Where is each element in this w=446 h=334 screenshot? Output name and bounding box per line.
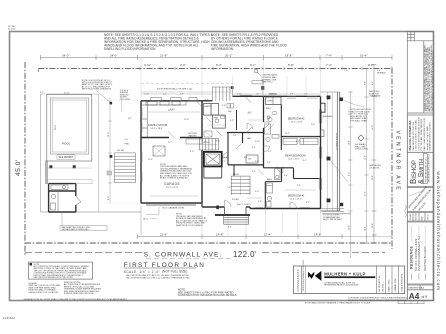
- svg-text:3'-6": 3'-6": [205, 100, 209, 102]
- svg-text:LIN.: LIN.: [248, 159, 252, 161]
- stamp diagonal: [407, 185, 432, 212]
- svg-text:BATH: BATH: [267, 178, 273, 181]
- windows top wall: [240, 95, 318, 98]
- svg-text:2312 ATLANTIC AVE LONGPORT NJ: 2312 ATLANTIC AVE LONGPORT NJ: [427, 154, 430, 182]
- svg-text:1-800-272-1000 N.J. ONE CALL: 1-800-272-1000 N.J. ONE CALL: [415, 119, 418, 151]
- svg-text:& SMITH: & SMITH: [418, 159, 425, 184]
- scattered dim texts inside: [148, 100, 315, 204]
- svg-text:2'-4": 2'-4": [297, 185, 301, 187]
- svg-text:3'-2": 3'-2": [128, 118, 132, 120]
- svg-text:PWD: PWD: [214, 117, 219, 119]
- svg-text:www.nj1-call.org NJ LAW: www.nj1-call.org NJ LAW: [426, 125, 429, 150]
- secondary dim line: [140, 66, 392, 70]
- svg-text:7'-4": 7'-4": [326, 63, 332, 67]
- svg-text:IF THIS BAR DOES NOT MEASURE 1: IF THIS BAR DOES NOT MEASURE 1" THEN DRA…: [305, 302, 371, 305]
- dense notes right column (rotated tiny lines): [423, 44, 434, 111]
- svg-text:UNDERGROUND UTILITIES: UNDERGROUND UTILITIES: [430, 122, 432, 151]
- BISHOP & SMITH logo rotated: [409, 154, 430, 184]
- svg-text:17'-4": 17'-4": [264, 232, 271, 236]
- svg-text:VENTNOR AVE: VENTNOR AVE: [395, 131, 401, 193]
- svg-text:INFORMATION: INFORMATION: [211, 47, 234, 51]
- section break squiggle near title block: [405, 205, 407, 217]
- residence box: [407, 222, 433, 284]
- windows bottom wall: [255, 206, 310, 208]
- svg-text:14'-8": 14'-8": [216, 232, 223, 236]
- svg-text:3'-6": 3'-6": [255, 161, 259, 163]
- hall door arcs: [223, 122, 297, 209]
- pwd / closets top middle: [204, 104, 226, 129]
- svg-text:21'-8": 21'-8": [160, 53, 167, 57]
- svg-text:7'-0": 7'-0": [227, 187, 231, 189]
- svg-text:DN 14R: DN 14R: [117, 150, 125, 152]
- svg-text:12'-4" x 11'-2": 12'-4" x 11'-2": [290, 198, 302, 200]
- svg-text:POOL: POOL: [62, 142, 71, 146]
- svg-text:5'-1": 5'-1": [268, 151, 272, 153]
- svg-text:2'-8": 2'-8": [222, 105, 226, 107]
- driveway: [140, 207, 142, 235]
- street line bottom + labels: [25, 252, 143, 254]
- svg-text:www.bishopandsmithshorearchite: www.bishopandsmithshorearchitects.com: [436, 172, 441, 291]
- svg-text:SHORE ARCHITECTS LLC: SHORE ARCHITECTS LLC: [425, 157, 428, 183]
- garage door lines: [146, 205, 196, 207]
- residence rotated text: [409, 226, 427, 280]
- svg-text:STRUCTURAL: STRUCTURAL: [355, 148, 369, 151]
- svg-text:DRAWN: MJM: DRAWN: MJM: [394, 278, 397, 291]
- svg-text:of 9: of 9: [422, 295, 428, 299]
- keynote circle + fire note: [254, 69, 258, 73]
- front note: [176, 214, 208, 228]
- closet top right: [266, 97, 281, 104]
- pool outer: [47, 95, 92, 162]
- svg-text:BATH: BATH: [266, 107, 271, 110]
- svg-text:5'-0": 5'-0": [248, 112, 252, 114]
- svg-text:28'-0": 28'-0": [55, 124, 57, 130]
- logo triangles: [308, 272, 314, 279]
- svg-text:IT'S THE LAW - FREE SERVICE: IT'S THE LAW - FREE SERVICE: [420, 118, 423, 151]
- svg-text:ONE CALL SYSTEMS INC.: ONE CALL SYSTEMS INC.: [409, 119, 412, 150]
- svg-text:UTILITY NOTIFICATION SYSTEM: UTILITY NOTIFICATION SYSTEM: [417, 117, 420, 151]
- svg-text:21'-6": 21'-6": [160, 232, 167, 236]
- top deck stairs: [212, 87, 232, 101]
- dims above top wall: [144, 94, 308, 96]
- shear diamond: [358, 135, 364, 141]
- svg-text:LINEN: LINEN: [268, 101, 274, 103]
- svg-text:BEDROOM #2: BEDROOM #2: [288, 118, 305, 121]
- left dim chain: [108, 97, 112, 203]
- main stair: [199, 139, 218, 151]
- property line right (ventnor): [391, 68, 393, 249]
- svg-text:12'-0": 12'-0": [108, 132, 110, 137]
- svg-text:SCALE: AS NOTED: SCALE: AS NOTED: [400, 273, 403, 291]
- svg-text:34'-0": 34'-0": [62, 53, 69, 57]
- property line left (street side): [24, 62, 26, 255]
- right cells: [377, 266, 399, 294]
- svg-text:LOCATION: LOCATION: [369, 166, 380, 169]
- mini table rotated text: [410, 213, 430, 220]
- svg-text:10'-6": 10'-6": [365, 226, 367, 231]
- thin row: [407, 285, 433, 290]
- svg-text:16'-8": 16'-8": [372, 175, 374, 180]
- cabana: [49, 184, 76, 212]
- svg-text:REQD. SEE DETAILS: REQD. SEE DETAILS: [323, 218, 342, 221]
- svg-text:7'-4": 7'-4": [326, 53, 332, 57]
- svg-text:6'-1": 6'-1": [250, 63, 256, 67]
- svg-text:4'-0": 4'-0": [255, 191, 259, 193]
- svg-text:6'-10": 6'-10": [170, 109, 175, 111]
- svg-text:4x4 P.T. POSTS: 4x4 P.T. POSTS: [237, 204, 251, 206]
- kitchen counters top: [141, 101, 186, 138]
- svg-text:VENTNOR (DOWNBEACH), N.J.: VENTNOR (DOWNBEACH), N.J.: [418, 235, 421, 271]
- family room south wall: [141, 137, 169, 139]
- svg-text:4'-8": 4'-8": [296, 141, 300, 143]
- svg-text:16'-0" GARAGE DOOR: 16'-0" GARAGE DOOR: [162, 206, 184, 209]
- svg-text:4'-2": 4'-2": [230, 120, 234, 122]
- footings: [49, 165, 52, 168]
- rev mini cells top: [410, 32, 412, 41]
- svg-text:W/D: W/D: [228, 111, 232, 113]
- svg-text:(6.2'): (6.2'): [143, 218, 148, 220]
- elevator: [204, 152, 222, 167]
- porch steps bottom: [321, 209, 352, 214]
- svg-text:REAR BEDROOM: REAR BEDROOM: [285, 155, 306, 158]
- svg-text:AT ALL COMMON SURFACES: AT ALL COMMON SURFACES: [160, 177, 188, 180]
- svg-text:2'-6": 2'-6": [267, 162, 271, 164]
- svg-text:1'-6": 1'-6": [311, 124, 315, 126]
- svg-text:SHEET FR-1: SHEET FR-1: [262, 82, 273, 84]
- svg-text:PWD: PWD: [125, 144, 130, 146]
- svg-text:5'-6": 5'-6": [125, 139, 129, 141]
- svg-text:4'-11": 4'-11": [144, 63, 151, 67]
- extension lines: [92, 58, 392, 237]
- svg-text:MK PROJECT No.: MK PROJECT No.: [379, 275, 381, 292]
- svg-text:5'-8": 5'-8": [288, 63, 294, 67]
- deck edge lines above top wall: [141, 91, 233, 93]
- svg-text:122.0': 122.0': [233, 250, 257, 259]
- svg-text:14'-8": 14'-8": [314, 232, 321, 236]
- svg-text:(NOT FULL SIZE): (NOT FULL SIZE): [162, 270, 187, 274]
- property line top: [39, 67, 393, 69]
- svg-text:9'-8": 9'-8": [216, 141, 220, 143]
- svg-text:11'-9": 11'-9": [365, 155, 367, 160]
- A4 box: [407, 290, 433, 301]
- right wall bay + extras: [321, 103, 393, 238]
- svg-text:14'-0": 14'-0": [372, 234, 377, 236]
- interior door diagonals: [168, 101, 274, 175]
- svg-text:9'-2": 9'-2": [372, 81, 374, 85]
- right dim chains: [348, 68, 369, 258]
- island: [153, 146, 165, 156]
- mid vertical wall: [263, 97, 265, 122]
- svg-text:SMOKE DETECTOR LOCATION: SMOKE DETECTOR LOCATION: [29, 291, 59, 294]
- svg-text:18'-8": 18'-8": [285, 53, 292, 57]
- right notes column: [423, 41, 425, 113]
- svg-text:20'-2" x 21'-4": 20'-2" x 21'-4": [166, 187, 179, 189]
- svg-text:RESIDENCE: RESIDENCE: [409, 246, 413, 269]
- svg-text:GENERAL NOTE: ALL WORK SHALL C: GENERAL NOTE: ALL WORK SHALL CONFORM TO …: [24, 298, 128, 301]
- leader + note box: [61, 212, 63, 226]
- svg-text:05-19-20: 05-19-20: [8, 29, 15, 31]
- svg-text:DRAWING No.: DRAWING No.: [408, 287, 422, 290]
- svg-text:BEFORE PROCEEDING WITH THE WOR: BEFORE PROCEEDING WITH THE WORK: [34, 277, 74, 279]
- svg-text:13'-8": 13'-8": [365, 117, 367, 122]
- svg-text:2'-8": 2'-8": [252, 147, 256, 149]
- svg-text:13'-2" x 11'-8": 13'-2" x 11'-8": [291, 121, 303, 123]
- property line bottom: [25, 242, 392, 244]
- svg-text:6'-2": 6'-2": [306, 202, 310, 204]
- svg-text:2'-10": 2'-10": [255, 141, 260, 143]
- svg-text:14'-2" x 18'-6": 14'-2" x 18'-6": [151, 128, 164, 130]
- notice box rotated text: [409, 117, 432, 151]
- bath fixtures right: [267, 169, 281, 208]
- svg-text:3'-9": 3'-9": [190, 151, 194, 153]
- cabana interior: [51, 185, 68, 190]
- svg-text:10'-4": 10'-4": [348, 140, 350, 145]
- outer walls: [141, 96, 321, 208]
- svg-text:8'-0": 8'-0": [228, 226, 232, 228]
- windows in right wall: [319, 110, 322, 190]
- svg-text:19-0481: 19-0481: [410, 213, 412, 220]
- svg-text:5'-6": 5'-6": [284, 175, 288, 177]
- svg-text:24'-0": 24'-0": [110, 53, 117, 57]
- svg-text:11'-2": 11'-2": [285, 133, 290, 135]
- svg-text:3'-0": 3'-0": [252, 171, 256, 173]
- pergola: [47, 180, 92, 184]
- right mid walls: [281, 136, 321, 138]
- svg-text:5'-2": 5'-2": [168, 142, 172, 144]
- svg-text:PRESTIGE BUILDERS: PRESTIGE BUILDERS: [424, 246, 427, 271]
- family room dim: [148, 111, 200, 113]
- svg-text:EGRESS WINDOWS PER CODE: EGRESS WINDOWS PER CODE: [64, 293, 95, 295]
- top dimension line: [40, 55, 392, 60]
- svg-text:DN 8R: DN 8R: [233, 174, 239, 176]
- svg-text:16'-4": 16'-4": [360, 53, 367, 57]
- egress note: [120, 90, 131, 101]
- svg-text:6'-4": 6'-4": [244, 157, 248, 159]
- right vert dims: [372, 65, 377, 243]
- mudroom details: [227, 104, 230, 109]
- sheet border: [10, 32, 434, 301]
- svg-text:1/4"=1': 1/4"=1': [428, 214, 430, 220]
- svg-text:5'-0": 5'-0": [40, 92, 44, 94]
- outdoor stair deck: [114, 153, 135, 183]
- svg-text:2 ALL EXTERIOR WALLS TO BE 5 1: 2 ALL EXTERIOR WALLS TO BE 5 1/2" UNLESS…: [126, 277, 191, 280]
- svg-text:10'-6": 10'-6": [348, 225, 350, 230]
- svg-text:SHEETS FR-1 FOR DETAILS: SHEETS FR-1 FOR DETAILS: [176, 224, 203, 227]
- svg-text:FAMILY ROOM: FAMILY ROOM: [148, 123, 168, 127]
- svg-text:UP 16R: UP 16R: [203, 142, 210, 144]
- svg-text:12'-0": 12'-0": [184, 119, 189, 121]
- svg-text:COVERED PORCH: COVERED PORCH: [337, 133, 339, 150]
- hall walls: [227, 132, 264, 134]
- svg-text:DATE: 5/8/20: DATE: 5/8/20: [388, 279, 391, 292]
- svg-text:10'-8": 10'-8": [372, 223, 374, 228]
- small tick marks along interior dims: [150, 120, 316, 198]
- svg-text:12'-0": 12'-0": [64, 93, 70, 95]
- kitchen/garage divider: [201, 101, 203, 139]
- notice box: [407, 115, 433, 152]
- svg-text:SCALE: 1/4" = 1'-0": SCALE: 1/4" = 1'-0": [124, 270, 161, 274]
- svg-text:8'-6": 8'-6": [108, 196, 110, 200]
- svg-text:SETBACK AND ZONING INFO: SETBACK AND ZONING INFO: [62, 228, 90, 231]
- svg-text:2'-9": 2'-9": [180, 63, 186, 67]
- svg-text:REPRODUCTION PROHIBITED WITHOU: REPRODUCTION PROHIBITED WITHOUT WRITTEN …: [348, 300, 407, 302]
- svg-text:11'-0" x 10'-6": 11'-0" x 10'-6": [288, 158, 300, 160]
- svg-text:2x6 EXTERIOR WALL TYP. SEE G-1: 2x6 EXTERIOR WALL TYP. SEE G-102: [157, 87, 193, 90]
- pool equipment pad + setback dim: [45, 161, 48, 185]
- bottom dim line: [138, 234, 343, 239]
- svg-text:PANTRY: PANTRY: [205, 105, 213, 108]
- mud area: [204, 131, 212, 137]
- svg-text:CONSULTANTS: CONSULTANTS: [296, 269, 300, 291]
- logo box: [407, 152, 433, 186]
- svg-text:BETHLEHEM, PA 18017 (610) 866: BETHLEHEM, PA 18017 (610) 866-8066: [324, 284, 358, 287]
- svg-text:15'-0": 15'-0": [372, 125, 374, 130]
- svg-text:CALL 3 DAYS BEFORE YOU DIG: CALL 3 DAYS BEFORE YOU DIG: [423, 117, 426, 150]
- svg-text:DWELLING FLOOD INFORMATION: DWELLING FLOOD INFORMATION: [104, 47, 156, 51]
- rear deck post/landing: [252, 81, 263, 84]
- svg-text:SEE PERMIT: SEE PERMIT: [59, 156, 74, 159]
- svg-text:3'-8": 3'-8": [258, 201, 262, 203]
- svg-text:1-FP-A4.2: 1-FP-A4.2: [3, 316, 15, 320]
- svg-text:8'-2": 8'-2": [348, 172, 350, 176]
- bath 2: [280, 104, 282, 136]
- svg-text:OVERHANG: OVERHANG: [369, 95, 381, 98]
- note block with leader top-left: [82, 79, 113, 91]
- svg-text:SETBACK: SETBACK: [377, 71, 387, 74]
- svg-text:11'-6": 11'-6": [148, 159, 153, 161]
- mini table: [407, 213, 433, 222]
- svg-text:FOYER: FOYER: [232, 199, 239, 201]
- stamp box: [407, 188, 433, 212]
- svg-text:A4: A4: [409, 292, 420, 301]
- deck edges: [40, 94, 42, 212]
- second stair front: [231, 176, 250, 195]
- svg-text:BEDROOM #1: BEDROOM #1: [288, 195, 305, 198]
- svg-text:3'-1": 3'-1": [233, 135, 237, 137]
- svg-text:9'-4": 9'-4": [365, 81, 367, 85]
- svg-text:CALL BEFORE YOU DIG 811: CALL BEFORE YOU DIG 811: [412, 121, 415, 151]
- svg-text:11'-2": 11'-2": [348, 110, 350, 115]
- svg-text:05/19/20: 05/19/20: [416, 213, 418, 220]
- svg-text:PANTRY: PANTRY: [189, 135, 198, 138]
- svg-text:5'-2": 5'-2": [216, 63, 222, 67]
- svg-text:7'-4": 7'-4": [344, 70, 348, 72]
- svg-text:11'-9": 11'-9": [365, 191, 367, 196]
- svg-text:STRUCTURAL ENGINEER OF RECORD: STRUCTURAL ENGINEER OF RECORD: [302, 260, 305, 292]
- svg-text:HALL: HALL: [247, 137, 252, 140]
- svg-text:S. CORNWALL AVE.: S. CORNWALL AVE.: [144, 252, 223, 259]
- svg-text:45.0': 45.0': [15, 159, 22, 176]
- svg-text:GARAGE: GARAGE: [164, 182, 180, 186]
- svg-text:SEE STRUCTURAL DRAWINGS: SEE STRUCTURAL DRAWINGS: [82, 88, 112, 91]
- svg-text:A9-2020.1: A9-2020.1: [381, 281, 384, 291]
- svg-text:ONLY. THIS DRAWING IS THE PROP: ONLY. THIS DRAWING IS THE PROPERTY OF TH…: [431, 50, 434, 112]
- svg-text:MULHERN + KULP: MULHERN + KULP: [324, 271, 365, 276]
- svg-text:2'-2": 2'-2": [222, 161, 226, 163]
- left wall windows: [140, 108, 142, 182]
- svg-text:CONSTRUCTION INFORMATION AND D: CONSTRUCTION INFORMATION AND DETAILS: [178, 293, 237, 297]
- svg-text:20'-2": 20'-2": [225, 53, 232, 57]
- svg-text:3'-2": 3'-2": [303, 160, 307, 162]
